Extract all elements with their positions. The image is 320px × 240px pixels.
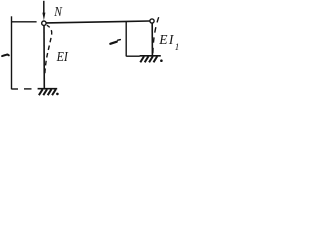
svg-text:1: 1	[175, 42, 180, 52]
hinge circle right	[150, 19, 154, 23]
support left ground line	[38, 88, 58, 90]
dimension line l: bottom dash	[24, 88, 32, 90]
deflected shape right (dashed)	[153, 17, 159, 55]
label l1 subscript tick	[118, 39, 121, 42]
label l1 (rotated)	[110, 42, 117, 44]
column right EI1	[151, 23, 153, 56]
dimension line l: vertical	[11, 16, 13, 89]
column left EI	[43, 26, 45, 89]
dimension line l1: vertical	[125, 22, 127, 57]
dimension line l1: bottom tick	[126, 55, 140, 57]
support right hatching	[140, 56, 157, 62]
dimension line l: bottom tick	[12, 88, 19, 90]
support left hatching	[39, 89, 56, 95]
hinge circle left	[42, 21, 46, 25]
support right end dot	[160, 59, 163, 62]
svg-text:EI: EI	[56, 48, 69, 64]
svg-text:N: N	[53, 4, 63, 19]
support left end dot	[56, 93, 59, 96]
svg-text:EI: EI	[158, 32, 175, 47]
dimension line l: top extension	[11, 21, 37, 23]
load arrow N	[42, 1, 45, 21]
support right ground line	[140, 55, 161, 57]
beam	[46, 21, 149, 23]
deflected shape left (dashed)	[45, 25, 52, 75]
label l (rotated)	[2, 55, 9, 57]
